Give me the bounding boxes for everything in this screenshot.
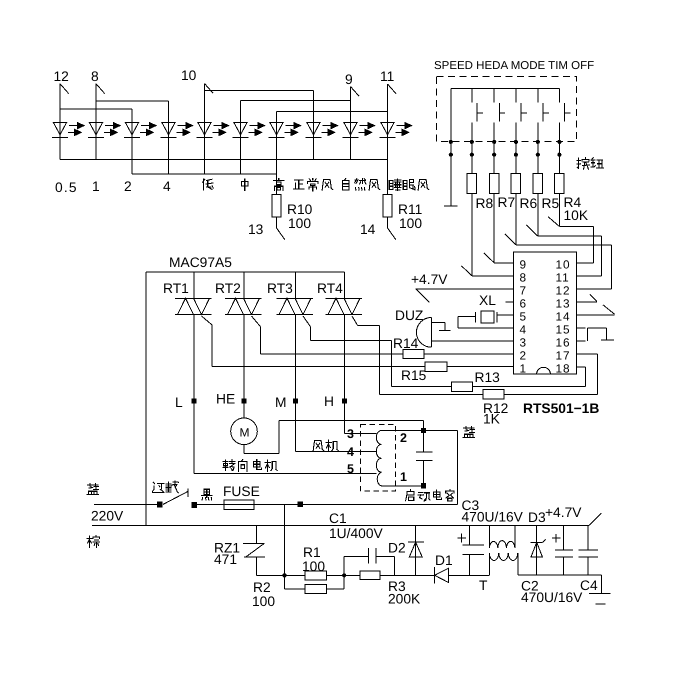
winding tap 4 (M) [296,451,377,453]
node A dot [282,573,286,577]
svg-text:R8: R8 [476,196,494,211]
resistor R4 [555,173,564,193]
junction dots TIM column [536,140,540,157]
IC pin 14 terminal [577,305,615,315]
pin 11 terminal [388,84,397,122]
svg-text:2: 2 [520,349,527,363]
svg-text:C4: C4 [580,578,598,593]
node L [191,398,196,403]
wire R13 to IC pin 18 [472,367,585,387]
fan winding coil [376,431,423,486]
capacitor C3 [463,525,484,575]
svg-text:RT3: RT3 [267,281,293,296]
label blue (lan) mains [87,484,98,495]
svg-text:14: 14 [360,222,376,237]
label overload (guozai) [153,482,165,492]
svg-text:470U/16V: 470U/16V [521,590,583,605]
svg-text:D1: D1 [435,553,453,568]
triac column RT3 (M) [295,272,297,452]
svg-text:2: 2 [124,179,132,194]
LED high [269,122,301,137]
svg-text:471: 471 [214,552,237,567]
diode D1 [435,567,470,583]
svg-text:R10: R10 [287,202,313,217]
svg-text:H: H [324,394,334,409]
resistor R15 [425,362,447,371]
pin 10 terminal [205,84,214,123]
label blue (lan) near winding [463,427,474,438]
pin 14 terminal [388,217,397,240]
svg-text:17: 17 [556,349,571,363]
plus sign C2 [552,534,561,543]
button box dashed [437,76,577,141]
label start capacitor (qidong dianrong) [406,490,415,501]
label sleep wind [389,179,401,190]
svg-text:RTS501−1B: RTS501−1B [523,401,599,416]
start capacitor [416,431,432,486]
pin 12 terminal [60,84,69,123]
winding tap 3 (H) [345,433,377,435]
ground (button common) [444,205,458,207]
IC pin numbers left 9-1 [520,257,527,375]
label brown (zong) [87,536,99,548]
wire R4 to IC pin 10 [548,194,594,263]
pin 13 terminal [277,217,286,240]
gate RT4 wire to R12 to IC pin17 [352,316,483,394]
push button HEDA [494,88,505,173]
svg-text:6: 6 [520,296,527,310]
svg-text:DUZ: DUZ [395,308,423,323]
resistor R7 [490,173,499,193]
triac RT1 [175,298,212,314]
svg-text:4: 4 [520,323,527,337]
svg-text:5: 5 [347,462,354,476]
varistor RZ1 [243,525,284,575]
LED normal [306,122,338,137]
junction dots MODE column [514,140,518,157]
DC negative line [470,574,602,576]
svg-text:R15: R15 [401,368,427,383]
svg-text:3: 3 [520,336,527,350]
IC U1 RTS501-1B body [514,252,577,374]
svg-text:M: M [240,426,250,440]
svg-text:1: 1 [92,179,100,194]
node H [342,398,347,403]
svg-text:2: 2 [400,431,407,445]
triac top bus [146,271,345,273]
IC pin 6 stub [506,301,514,303]
wire pin8 to LED 4h [96,101,169,122]
svg-text:R11: R11 [398,202,422,217]
crystal XL [458,311,513,323]
svg-text:FUSE: FUSE [223,484,260,499]
button common down-lead to ground [450,88,452,205]
svg-text:10: 10 [556,257,571,271]
svg-text:+4.7V: +4.7V [411,272,448,287]
switch on IC pins 15-16 [577,328,614,341]
wire R5 to IC pin 11 [527,194,602,276]
svg-text:1: 1 [520,362,527,376]
svg-text:R1: R1 [303,545,321,560]
button common bus [451,87,560,89]
svg-text:SPEED HEDA MODE TIM OFF: SPEED HEDA MODE TIM OFF [434,60,594,72]
svg-text:MAC97A5: MAC97A5 [169,255,232,270]
pin 9 terminal [351,87,360,123]
svg-text:R6: R6 [520,196,538,211]
left rail down to brown line [145,272,147,525]
LED low [197,122,229,137]
svg-text:4: 4 [347,445,354,459]
fuse FUSE [224,500,254,510]
svg-text:D3: D3 [528,510,546,525]
svg-text:T: T [479,578,488,593]
svg-text:100: 100 [288,216,311,231]
overload protector switch (guozai) [157,489,197,508]
svg-text:470U/16V: 470U/16V [462,510,524,525]
svg-text:11: 11 [556,270,570,284]
svg-text:7: 7 [520,283,527,297]
LED natural [343,122,375,137]
blue line through fuse to winding node [197,503,457,505]
svg-text:4: 4 [163,179,171,194]
svg-text:1K: 1K [483,412,501,427]
triac column RT1 (L) [193,272,195,474]
svg-text:100: 100 [252,594,275,609]
svg-text:200K: 200K [388,592,421,607]
svg-text:10K: 10K [564,208,589,223]
wire pin10 to LED normal [205,91,314,123]
resistor R6 [511,173,520,193]
winding tap 5 (L) [194,473,377,475]
svg-text:R5: R5 [542,196,560,211]
label normal wind [294,180,304,189]
wire R6 to IC pin 12 [505,194,612,289]
wire bus1 to R11 [387,159,389,194]
wire XL to IC pin 4 [458,316,513,328]
+4.7V terminal at rail end [589,513,602,525]
triac RT3 [277,298,314,314]
buzzer DUZ [416,318,450,348]
junction dots SPEED column [470,140,474,157]
wire pin12 to LED 2h [60,109,132,122]
svg-text:11: 11 [380,69,394,84]
wire R12 to IC pin 17 [504,354,597,394]
blue mains line [94,503,158,505]
LED mid [233,122,265,137]
diode D2 [408,525,424,575]
resistor R8 [467,173,476,193]
svg-text:1U/400V: 1U/400V [329,526,383,541]
wire pin11 to LED high [277,112,388,123]
node winding pin1 [421,483,426,488]
oscillating motor M [231,418,258,445]
svg-text:8: 8 [520,270,527,284]
wire blue line down to node A [284,504,286,575]
svg-text:+4.7V: +4.7V [545,505,582,520]
resistor R11 [383,195,392,217]
blue wire from winding to mains [424,431,458,505]
svg-text:R7: R7 [498,195,516,210]
svg-text:0.5: 0.5 [55,180,78,195]
push button OFF [559,88,570,173]
resistor R14 [403,349,424,358]
triac column RT4 (H) [344,272,346,434]
wire pin9 to LED mid [241,101,351,123]
+4.7V supply terminal to IC pin 7 [416,289,514,303]
LED 2h [124,122,156,137]
node winding pin2 [421,428,426,433]
svg-text:XL: XL [479,293,496,308]
ground (main) [589,575,610,604]
label fan (fengji) [313,441,324,452]
junction dots HEDA column [492,140,496,157]
capacitor C2 [555,525,573,575]
pin 8 terminal [96,84,105,123]
svg-text:15: 15 [556,323,571,337]
push button SPEED [472,88,483,173]
IC bottom notch [537,367,551,374]
label button (anniu) [577,158,589,170]
junction dots OFF column [557,140,561,157]
svg-text:5: 5 [520,309,527,323]
junction on blue line [298,502,303,507]
svg-text:12: 12 [54,69,69,84]
svg-text:D2: D2 [388,541,406,556]
label turn motor (zhuanxiang dianji) [223,460,235,471]
gate RT1 to R15 to IC pin1 [202,316,425,367]
triac RT2 [225,298,262,314]
LED sleep [380,122,412,137]
resistor R5 [533,173,542,193]
svg-text:HE: HE [216,392,235,407]
brown mains rail (+4.7V rail) [92,524,589,526]
cathode bus2 (to R10) [132,173,277,175]
label black (hei) [202,489,212,500]
cathode drops bus1 to bus2 [132,159,277,174]
zener diode D3 [531,525,546,575]
svg-text:12: 12 [556,283,571,297]
svg-text:9: 9 [520,257,527,271]
label mid speed [241,179,248,191]
LED cathode drops to bus1 [60,137,388,159]
triac RT4 [326,298,363,314]
resistor R12 [483,390,504,399]
IC pin 13 terminal [577,294,597,301]
svg-text:14: 14 [556,309,571,323]
LED 0.5h [52,122,84,137]
motor bottom wire to winding pin 2 [244,420,424,453]
capacitor C1 [344,548,394,575]
svg-text:RT2: RT2 [215,281,241,296]
wire R8 to IC pin 8 [462,194,514,276]
svg-text:1: 1 [400,470,407,484]
svg-text:R2: R2 [253,580,271,595]
gate RT2 to R14 to IC pin2 [252,316,404,354]
transformer T primary [489,525,515,548]
svg-text:RT4: RT4 [317,281,343,296]
svg-text:100: 100 [302,559,325,574]
resistor R3 [344,571,434,580]
svg-text:8: 8 [91,69,99,84]
node HE [241,398,246,403]
svg-text:220V: 220V [91,509,124,524]
label low speed [203,179,214,190]
LED 1h [88,122,120,137]
node M [293,398,298,403]
node B dot [342,573,346,577]
svg-text:3: 3 [347,427,354,441]
plus sign C3 [458,534,467,543]
svg-text:C1: C1 [329,511,347,526]
gate RT3 wire to R13 to IC pin18 [303,316,451,387]
svg-text:16: 16 [556,336,571,350]
svg-text:10: 10 [181,68,197,83]
resistor R10 [272,195,281,217]
svg-text:18: 18 [556,362,571,376]
cathode bus1 (to R11) [60,158,388,160]
svg-text:M: M [275,395,287,410]
svg-text:9: 9 [345,72,353,87]
svg-text:L: L [175,395,183,410]
LED 4h [161,122,193,137]
push button TIM [538,88,549,173]
resistor R2 [285,575,345,593]
svg-text:13: 13 [248,222,264,237]
push button MODE [516,88,527,173]
resistor R1 [285,571,345,580]
svg-text:R13: R13 [475,370,501,385]
resistor R13 [451,382,472,391]
svg-text:13: 13 [556,296,571,310]
svg-text:R14: R14 [393,336,419,351]
svg-text:RT1: RT1 [163,281,189,296]
triac column RT2 (HE) [243,272,245,418]
junction dots common column [449,140,453,157]
fan winding dashed box [361,425,396,492]
label high speed [274,178,284,190]
wire R7 to IC pin 9 [484,194,514,263]
wire DUZ to IC pin 3 [431,340,513,342]
capacitor C4 [578,525,598,575]
IC pin numbers right 10-18 [556,257,571,375]
wire bus2 to R10 [276,174,278,195]
svg-text:100: 100 [399,216,422,231]
label natural wind [342,178,349,189]
transformer T secondary [489,553,518,575]
